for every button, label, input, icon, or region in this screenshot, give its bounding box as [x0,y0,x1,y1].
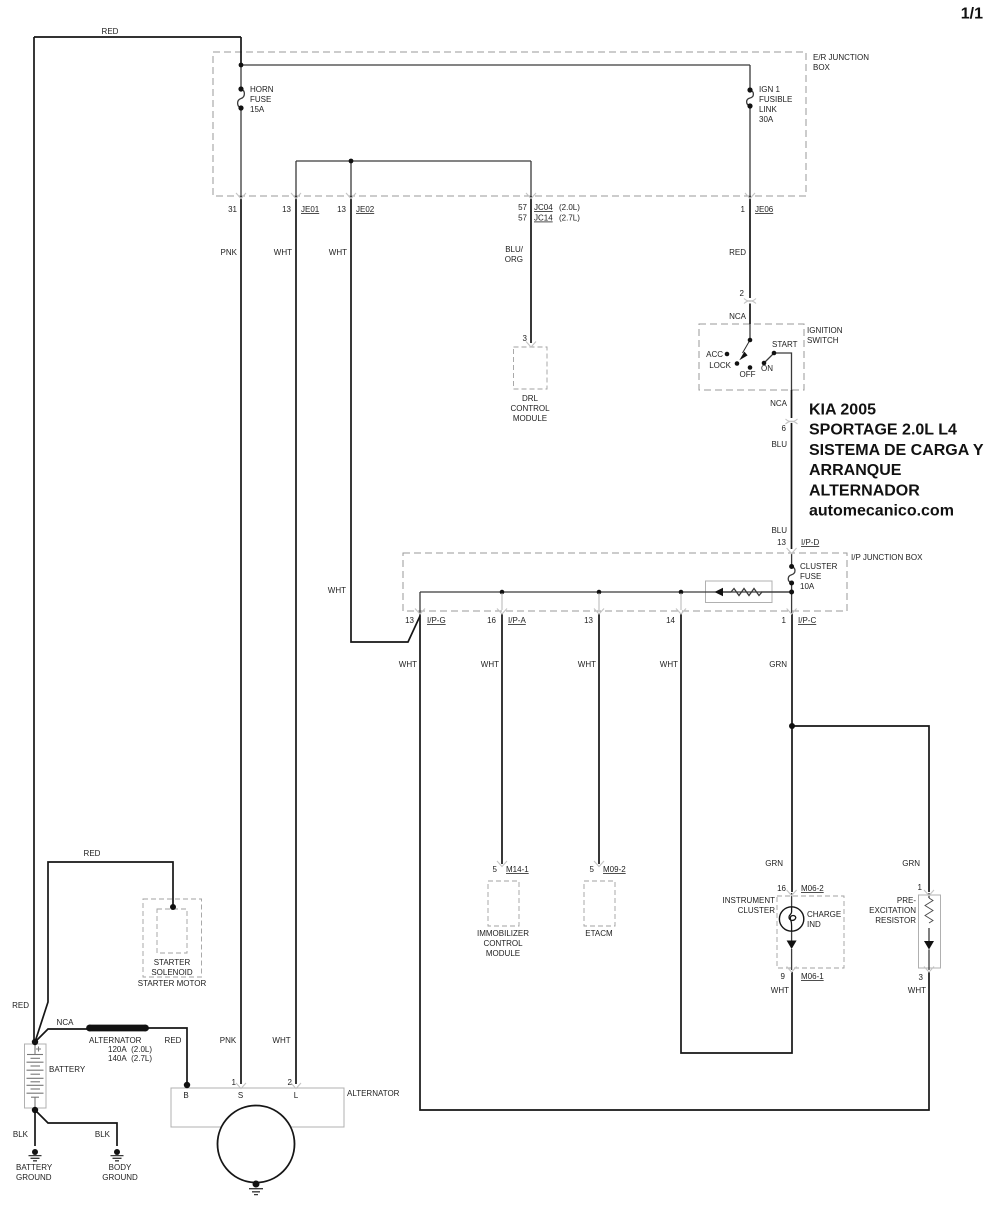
svg-text:SWITCH: SWITCH [807,336,839,345]
svg-text:NCA: NCA [57,1018,75,1027]
svg-text:13: 13 [337,205,346,214]
svg-text:13: 13 [282,205,291,214]
svg-text:I/P-C: I/P-C [798,616,816,625]
svg-text:WHT: WHT [771,986,789,995]
svg-text:BOX: BOX [813,63,831,72]
svg-text:10A: 10A [800,582,815,591]
svg-text:(2.7L): (2.7L) [559,214,580,223]
svg-text:16: 16 [777,884,786,893]
svg-text:5: 5 [590,865,595,874]
svg-text:M09-2: M09-2 [603,865,626,874]
svg-text:STARTER: STARTER [154,958,191,967]
svg-text:JE01: JE01 [301,205,320,214]
svg-text:BATTERY: BATTERY [49,1065,86,1074]
svg-text:CONTROL: CONTROL [510,404,550,413]
svg-text:LOCK: LOCK [709,361,731,370]
svg-text:2: 2 [288,1078,293,1087]
svg-text:NCA: NCA [729,312,747,321]
svg-text:ALTERNATOR: ALTERNATOR [89,1036,142,1045]
svg-text:BODY: BODY [109,1163,132,1172]
svg-text:M06-1: M06-1 [801,972,824,981]
svg-text:1: 1 [918,883,923,892]
svg-text:1: 1 [782,616,787,625]
svg-text:9: 9 [781,972,786,981]
svg-text:2: 2 [740,289,745,298]
svg-text:L: L [294,1091,299,1100]
svg-text:I/P-A: I/P-A [508,616,526,625]
svg-text:6: 6 [782,424,787,433]
svg-text:GRN: GRN [769,660,787,669]
svg-text:LINK: LINK [759,105,777,114]
svg-text:BLK: BLK [13,1130,29,1139]
svg-text:57: 57 [518,203,527,212]
svg-text:BLU: BLU [771,440,787,449]
svg-text:30A: 30A [759,115,774,124]
svg-text:31: 31 [228,205,237,214]
svg-text:ALTERNADOR: ALTERNADOR [809,482,920,499]
svg-text:E/R JUNCTION: E/R JUNCTION [813,53,869,62]
svg-text:RED: RED [102,27,119,36]
svg-text:PNK: PNK [220,1036,237,1045]
svg-text:CLUSTER: CLUSTER [738,906,776,915]
svg-text:RESISTOR: RESISTOR [875,916,916,925]
svg-text:CHARGE: CHARGE [807,910,841,919]
svg-text:STARTER MOTOR: STARTER MOTOR [138,979,207,988]
svg-text:FUSE: FUSE [250,95,271,104]
svg-text:M14-1: M14-1 [506,865,529,874]
svg-text:1: 1 [232,1078,237,1087]
svg-text:SPORTAGE 2.0L L4: SPORTAGE 2.0L L4 [809,422,957,439]
svg-text:BLU/: BLU/ [505,245,524,254]
svg-text:GRN: GRN [902,859,920,868]
svg-text:1: 1 [741,205,746,214]
svg-text:JE06: JE06 [755,205,774,214]
svg-text:13: 13 [405,616,414,625]
svg-text:MODULE: MODULE [486,949,520,958]
svg-text:ACC: ACC [706,350,723,359]
svg-text:15A: 15A [250,105,265,114]
svg-text:ARRANQUE: ARRANQUE [809,462,902,479]
svg-text:13: 13 [584,616,593,625]
svg-text:RED: RED [12,1001,29,1010]
svg-text:IGN 1: IGN 1 [759,85,780,94]
svg-text:START: START [772,340,798,349]
svg-text:(2.0L): (2.0L) [559,203,580,212]
svg-text:EXCITATION: EXCITATION [869,906,916,915]
svg-text:NCA: NCA [770,399,788,408]
svg-text:3: 3 [523,334,528,343]
svg-text:SISTEMA DE CARGA Y: SISTEMA DE CARGA Y [809,442,984,459]
svg-text:GROUND: GROUND [16,1173,52,1182]
svg-text:RED: RED [729,248,746,257]
svg-text:I/P JUNCTION BOX: I/P JUNCTION BOX [851,553,923,562]
svg-text:M06-2: M06-2 [801,884,824,893]
svg-text:ON: ON [761,364,773,373]
svg-text:INSTRUMENT: INSTRUMENT [723,896,776,905]
svg-text:WHT: WHT [272,1036,290,1045]
svg-text:FUSE: FUSE [800,572,821,581]
svg-text:WHT: WHT [274,248,292,257]
svg-text:OFF: OFF [740,370,756,379]
svg-text:CONTROL: CONTROL [483,939,523,948]
svg-text:14: 14 [666,616,675,625]
svg-text:IND: IND [807,920,821,929]
svg-text:WHT: WHT [329,248,347,257]
svg-text:IGNITION: IGNITION [807,326,843,335]
svg-text:120A (2.0L): 120A (2.0L) [108,1045,152,1054]
svg-text:BLK: BLK [95,1130,111,1139]
svg-text:WHT: WHT [908,986,926,995]
svg-text:I/P-G: I/P-G [427,616,446,625]
svg-text:JE02: JE02 [356,205,375,214]
svg-text:140A (2.7L): 140A (2.7L) [108,1054,152,1063]
svg-text:RED: RED [165,1036,182,1045]
svg-text:KIA 2005: KIA 2005 [809,402,876,419]
svg-text:PRE-: PRE- [897,896,916,905]
svg-text:RED: RED [84,849,101,858]
svg-text:FUSIBLE: FUSIBLE [759,95,792,104]
svg-text:1/1: 1/1 [961,6,983,23]
svg-text:5: 5 [493,865,498,874]
svg-text:WHT: WHT [578,660,596,669]
svg-text:S: S [238,1091,243,1100]
svg-text:SOLENOID: SOLENOID [151,968,193,977]
svg-text:HORN: HORN [250,85,274,94]
svg-text:WHT: WHT [660,660,678,669]
svg-text:WHT: WHT [399,660,417,669]
svg-text:automecanico.com: automecanico.com [809,503,954,520]
svg-text:WHT: WHT [328,586,346,595]
svg-text:IMMOBILIZER: IMMOBILIZER [477,929,529,938]
svg-text:DRL: DRL [522,394,539,403]
svg-text:ETACM: ETACM [585,929,613,938]
svg-text:I/P-D: I/P-D [801,538,819,547]
svg-text:3: 3 [919,973,924,982]
svg-text:CLUSTER: CLUSTER [800,562,838,571]
svg-text:13: 13 [777,538,786,547]
svg-text:JC14: JC14 [534,214,553,223]
svg-text:BATTERY: BATTERY [16,1163,53,1172]
svg-text:PNK: PNK [221,248,238,257]
svg-text:GRN: GRN [765,859,783,868]
svg-text:ORG: ORG [505,255,523,264]
svg-text:JC04: JC04 [534,203,553,212]
svg-text:57: 57 [518,214,527,223]
svg-text:BLU: BLU [771,526,787,535]
svg-text:GROUND: GROUND [102,1173,138,1182]
svg-text:MODULE: MODULE [513,414,547,423]
svg-text:WHT: WHT [481,660,499,669]
svg-text:B: B [183,1091,188,1100]
svg-text:ALTERNATOR: ALTERNATOR [347,1089,400,1098]
svg-text:16: 16 [487,616,496,625]
